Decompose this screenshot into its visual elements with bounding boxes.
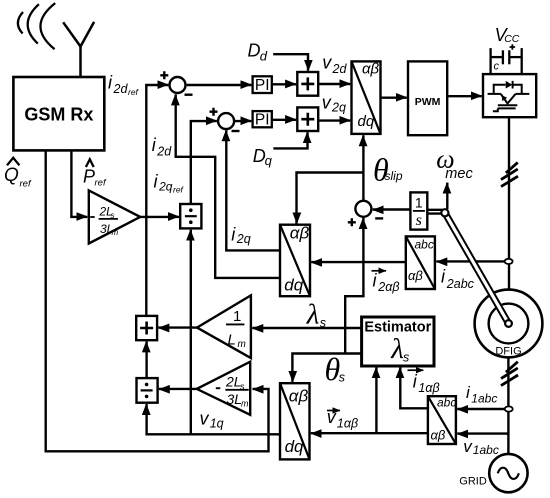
inverter U1 bbox=[483, 74, 536, 117]
label i1alphabeta with vector arrow bbox=[408, 370, 440, 395]
svg-text:v: v bbox=[322, 93, 332, 113]
antenna bbox=[63, 22, 94, 78]
svg-text:d: d bbox=[260, 49, 268, 64]
label v2d bbox=[322, 52, 347, 76]
three-phase slashes top bbox=[501, 162, 518, 186]
svg-text:1abc: 1abc bbox=[471, 391, 497, 405]
wire B1 to PWM bbox=[381, 96, 407, 98]
wire triangle2 to D2 bbox=[159, 388, 197, 390]
svg-text:λ: λ bbox=[306, 299, 320, 331]
svg-text:m: m bbox=[238, 339, 246, 350]
label i2dref bbox=[108, 73, 140, 98]
wire S2 to PI2 bbox=[235, 120, 252, 122]
svg-text:v: v bbox=[322, 52, 332, 72]
wire PI1 to sum box A1 bbox=[272, 83, 296, 85]
svg-text:dq: dq bbox=[358, 113, 375, 130]
label i2q bbox=[231, 225, 251, 246]
svg-text:mec: mec bbox=[445, 166, 473, 182]
svg-text:1q: 1q bbox=[210, 417, 224, 431]
svg-text:ref: ref bbox=[20, 179, 32, 190]
wire A2 to transform B1 (v2q) bbox=[318, 119, 350, 121]
svg-text:s: s bbox=[320, 316, 326, 330]
wire theta_slip to B1 bbox=[362, 135, 364, 200]
wire PWM to inverter bbox=[447, 95, 482, 97]
svg-text:v: v bbox=[327, 407, 337, 427]
transform block B4 abc/ab (i1,v1) bbox=[428, 395, 456, 444]
svg-text:αβ: αβ bbox=[290, 224, 310, 243]
wire i2q feedback to S2 bbox=[226, 130, 280, 250]
label omega_mec bbox=[436, 145, 473, 183]
label theta_slip bbox=[373, 152, 403, 188]
label i2qref bbox=[154, 172, 185, 195]
svg-text:dq: dq bbox=[284, 275, 303, 294]
block PI1 bbox=[253, 76, 272, 94]
label i2alphabeta with vector arrow bbox=[372, 271, 400, 295]
svg-text:slip: slip bbox=[385, 169, 403, 183]
sum box A2 bbox=[297, 107, 318, 131]
wire integrator 1/s to S3 bbox=[373, 208, 411, 210]
block PI2 bbox=[253, 111, 272, 128]
wire PI2 to sum box A2 bbox=[272, 119, 296, 121]
wire divider D1 output to S2 bbox=[191, 121, 217, 204]
label i2d bbox=[152, 135, 173, 159]
wire lambda_s estimator to 1/Lm triangle bbox=[252, 327, 361, 329]
svg-text:v: v bbox=[463, 437, 473, 456]
svg-text:q: q bbox=[265, 153, 273, 168]
wire Dd input to A1 bbox=[273, 54, 308, 71]
wire S1 to PI1 bbox=[187, 84, 252, 86]
svg-text:PI: PI bbox=[255, 111, 270, 128]
svg-text:2αβ: 2αβ bbox=[377, 280, 399, 294]
svg-text:2q: 2q bbox=[331, 101, 346, 115]
block PWM bbox=[408, 61, 447, 135]
transform block B1 ab/dq bbox=[352, 60, 381, 134]
divider D1 bbox=[180, 204, 201, 228]
svg-text:P: P bbox=[83, 167, 95, 187]
wire A1 to transform B1 (v2d) bbox=[318, 83, 350, 85]
label theta_s bbox=[325, 351, 346, 387]
svg-text:c: c bbox=[494, 61, 500, 73]
block GSM Rx bbox=[13, 77, 104, 150]
svg-text:αβ: αβ bbox=[362, 60, 380, 77]
summing junction S2 bbox=[210, 108, 240, 131]
wire i2dref: adder output up to summing junction S1 bbox=[146, 85, 168, 316]
gain triangle1 -2Ls/3Lm bbox=[89, 190, 140, 243]
svg-text:2abc: 2abc bbox=[446, 277, 475, 291]
GRID source bbox=[459, 454, 527, 492]
DFIG machine bbox=[475, 290, 543, 358]
svg-text:D: D bbox=[248, 41, 261, 61]
svg-text:1: 1 bbox=[233, 308, 241, 325]
wire i2abc tap to B3 bbox=[436, 260, 505, 262]
divider D2 bbox=[137, 378, 158, 403]
svg-text:2d: 2d bbox=[156, 145, 172, 159]
svg-text:Q: Q bbox=[4, 165, 19, 186]
svg-text:m: m bbox=[241, 398, 249, 408]
svg-text:s: s bbox=[416, 212, 422, 229]
svg-text:CC: CC bbox=[504, 33, 520, 45]
svg-text:dq: dq bbox=[285, 437, 304, 456]
summing junction S3 theta_slip bbox=[348, 201, 383, 227]
label Vcc bbox=[495, 25, 520, 45]
svg-text:2d: 2d bbox=[332, 62, 348, 76]
node stator tap (ellipse) bbox=[505, 406, 513, 411]
svg-text:ref: ref bbox=[173, 185, 185, 195]
label v2q bbox=[322, 93, 346, 115]
wire omega_mec arrow bbox=[446, 183, 448, 209]
wire i1alphabeta B4 to estimator bbox=[400, 367, 428, 408]
gain triangle 1/Lm bbox=[197, 295, 251, 358]
wire stator line DFIG to GRID bbox=[507, 358, 509, 455]
svg-text:L: L bbox=[228, 332, 236, 349]
svg-text:2q: 2q bbox=[236, 232, 251, 246]
transform block B5 ab/dq (v1) bbox=[280, 383, 310, 459]
svg-text:abc: abc bbox=[437, 395, 456, 409]
svg-text:λ: λ bbox=[390, 333, 404, 365]
svg-text:PWM: PWM bbox=[415, 96, 441, 108]
wire v1abc tap to B4 bbox=[457, 432, 508, 434]
wire v1alphabeta B4 to B5 bbox=[311, 432, 428, 434]
label Pref bbox=[83, 159, 107, 188]
label Dd bbox=[248, 41, 268, 64]
svg-text:GRID: GRID bbox=[459, 476, 487, 488]
wire D2 output to adder bbox=[145, 341, 147, 378]
svg-text:2q: 2q bbox=[158, 180, 173, 194]
svg-text:abc: abc bbox=[415, 237, 434, 251]
transform block B3 abc/ab (i2abc) bbox=[406, 236, 435, 289]
wire v1q branch to divider D1 bbox=[190, 230, 192, 435]
svg-text:ref: ref bbox=[128, 87, 140, 97]
antenna waves bbox=[18, 3, 55, 49]
svg-text:s: s bbox=[339, 371, 345, 385]
label v1q bbox=[200, 409, 224, 431]
svg-text:3L: 3L bbox=[227, 391, 243, 407]
svg-text:DFIG: DFIG bbox=[495, 346, 521, 358]
label v1alphabeta with vector arrow bbox=[327, 407, 358, 431]
wire theta_s to S3 plus input bbox=[345, 218, 363, 354]
transform block B2 ab/dq (i2) bbox=[280, 224, 310, 297]
svg-text:2d: 2d bbox=[113, 82, 129, 96]
wire i2alphabeta B3 to B2 bbox=[311, 261, 406, 263]
wire v1alphabeta branch to estimator bbox=[375, 367, 377, 433]
Vcc capacitor link bbox=[491, 44, 522, 74]
label Qref bbox=[4, 158, 32, 190]
wire v1q B5 to divider D2 bbox=[147, 404, 280, 434]
svg-text:v: v bbox=[200, 409, 210, 429]
svg-text:PI: PI bbox=[255, 77, 270, 94]
estimator block bbox=[362, 317, 434, 366]
adder box left bbox=[136, 316, 157, 340]
svg-text:s: s bbox=[403, 351, 409, 365]
gain triangle2 -2Ls/3Lm bbox=[197, 362, 250, 415]
shaft rod bbox=[441, 209, 512, 327]
node rotor tap (ellipse) bbox=[505, 259, 513, 264]
svg-text:1αβ: 1αβ bbox=[418, 381, 439, 395]
svg-text:GSM Rx: GSM Rx bbox=[24, 105, 93, 125]
wire theta_s estimator to B5 bbox=[292, 354, 361, 382]
svg-text:αβ: αβ bbox=[408, 268, 423, 283]
wire rotor line inverter to DFIG bbox=[508, 117, 510, 305]
label v1abc bbox=[463, 437, 499, 457]
svg-text:ref: ref bbox=[95, 178, 107, 189]
wire theta_slip branch to B2 bbox=[297, 173, 364, 224]
summing junction S1 bbox=[160, 71, 192, 94]
wire 1/Lm triangle to adder bbox=[158, 326, 197, 328]
label i1abc bbox=[466, 383, 497, 405]
svg-text:αβ: αβ bbox=[431, 428, 446, 443]
label Dq bbox=[253, 146, 273, 168]
wire Qref from GSM Rx to gain triangle2 bbox=[46, 151, 269, 452]
wire i1abc tap to B4 bbox=[457, 408, 505, 410]
integrator 1/s bbox=[410, 192, 427, 229]
label lambda_s bbox=[306, 299, 326, 331]
svg-text:1: 1 bbox=[415, 195, 423, 211]
label i2abc bbox=[441, 267, 475, 292]
wire shaft to 1/s (double line) bbox=[427, 209, 444, 211]
wire Pref from GSM Rx to gain triangle1 bbox=[71, 151, 87, 217]
sum box A1 bbox=[297, 72, 318, 96]
wire Dq input to A2 bbox=[273, 132, 307, 148]
wire i2d feedback to S1 bbox=[176, 94, 280, 278]
wire triangle1 to divider D1 bbox=[140, 216, 179, 218]
three-phase slashes bottom bbox=[501, 362, 518, 386]
svg-text:αβ: αβ bbox=[289, 386, 309, 405]
svg-text:1abc: 1abc bbox=[473, 443, 499, 457]
svg-text:m: m bbox=[112, 228, 119, 237]
svg-text:1αβ: 1αβ bbox=[337, 417, 358, 431]
